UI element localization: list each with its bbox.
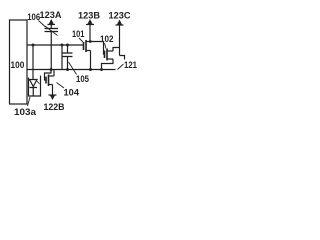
wire 102 source <box>102 59 114 70</box>
svg-text:123B: 123B <box>78 11 100 22</box>
OLED box 103a <box>29 76 41 97</box>
transistor 102 <box>105 49 114 61</box>
wire 123C hook <box>120 56 125 60</box>
wire 101 source <box>90 51 92 70</box>
capacitor 106 <box>45 26 59 70</box>
junction dot 101 drain <box>89 40 92 43</box>
leader 103a <box>28 97 31 106</box>
svg-text:103a: 103a <box>14 107 37 118</box>
leader 106 <box>39 21 46 28</box>
svg-text:102: 102 <box>100 34 114 44</box>
capacitor 105 <box>63 45 73 70</box>
leader 105 <box>69 62 77 75</box>
wire 102 drain <box>113 48 120 52</box>
block 100 <box>10 20 28 104</box>
svg-text:101: 101 <box>72 29 84 39</box>
svg-text:106: 106 <box>27 12 40 22</box>
svg-text:122B: 122B <box>44 102 65 113</box>
svg-text:121: 121 <box>124 60 137 70</box>
leader 101 <box>79 38 83 42</box>
transistor 104 <box>45 70 55 87</box>
junction dots bus2 <box>50 68 104 71</box>
terminal 123C <box>116 20 124 56</box>
wire bus1 <box>27 44 84 46</box>
svg-text:123C: 123C <box>109 11 131 22</box>
terminal 122B <box>49 85 57 101</box>
wire diode feed <box>32 45 34 80</box>
leader 102 <box>105 43 107 49</box>
transistor 101 <box>84 40 91 52</box>
svg-text:105: 105 <box>76 74 89 84</box>
terminal 123B <box>86 19 94 42</box>
wire 101 drain to 102 gate <box>90 42 105 55</box>
wire bus2 <box>27 69 116 71</box>
leader 104 <box>57 83 65 89</box>
terminal 123A <box>48 19 56 29</box>
svg-text:104: 104 <box>64 88 80 98</box>
junction dots bus1 <box>32 44 70 47</box>
wire bus1-bus2 link <box>61 45 63 70</box>
svg-text:123A: 123A <box>40 10 62 21</box>
svg-text:100: 100 <box>11 60 25 70</box>
leader 121 <box>118 64 124 70</box>
